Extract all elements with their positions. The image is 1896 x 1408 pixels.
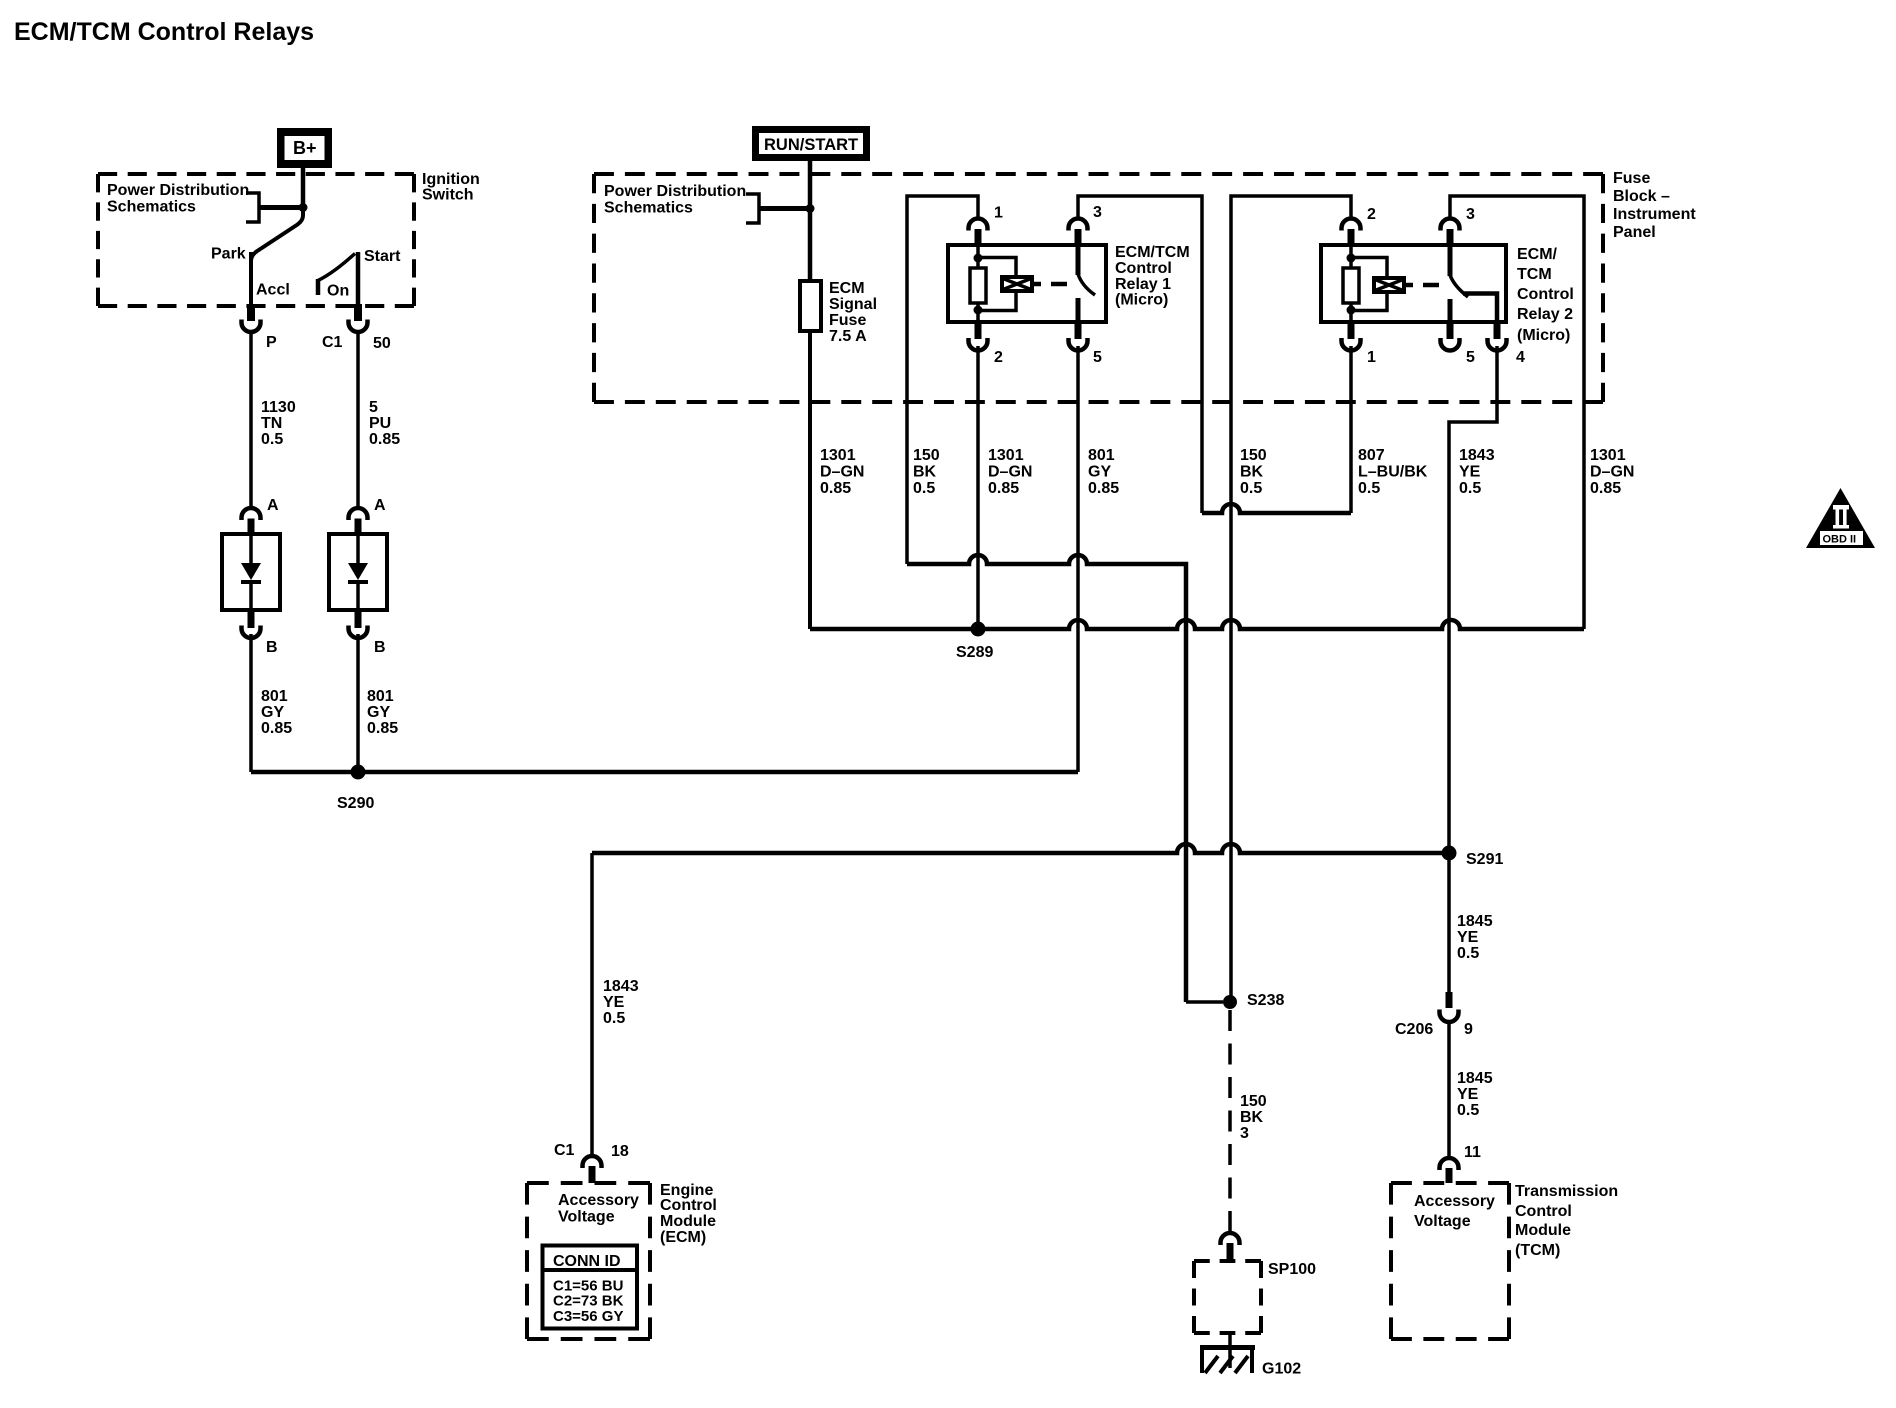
svg-text:P: P bbox=[266, 334, 277, 351]
connector stub B right bbox=[355, 610, 362, 628]
connector stub TCM pin 11 bbox=[1446, 1168, 1453, 1183]
svg-text:0.5: 0.5 bbox=[261, 431, 283, 448]
relay 2 pin 3 top link bbox=[1450, 196, 1584, 629]
connector arc relay1 pin 1 bbox=[969, 219, 988, 231]
CONN ID table bbox=[543, 1246, 638, 1329]
splice S291 bbox=[1442, 846, 1457, 861]
connector arc A (right diode) bbox=[349, 508, 368, 520]
label Ignition Switch bbox=[422, 171, 480, 204]
svg-text:S291: S291 bbox=[1466, 851, 1503, 868]
svg-text:150: 150 bbox=[1240, 1093, 1267, 1110]
svg-text:CONN ID: CONN ID bbox=[553, 1253, 621, 1270]
label Engine Control Module (ECM) bbox=[660, 1182, 717, 1246]
svg-text:1: 1 bbox=[1367, 349, 1376, 366]
svg-text:B: B bbox=[266, 639, 278, 656]
connector arc relay2 pin 5 bbox=[1441, 338, 1460, 351]
wire label 1301 D-GN 0.85 (fuse out) bbox=[820, 447, 864, 497]
connector arc relay2 pin 1 bbox=[1342, 338, 1361, 351]
relay1 coil stub to actuator bbox=[1034, 282, 1041, 287]
label ECM/ TCM Control Relay 2 (Micro) bbox=[1517, 246, 1574, 344]
svg-text:GY: GY bbox=[367, 704, 390, 721]
svg-text:D–GN: D–GN bbox=[1590, 464, 1634, 481]
fuse F1 ECM Signal Fuse bbox=[800, 281, 821, 331]
connector stub relay1 pin1 bbox=[975, 229, 982, 246]
svg-text:ECM: ECM bbox=[829, 280, 865, 297]
svg-text:150: 150 bbox=[913, 447, 940, 464]
elbow into S238 from upper bus bbox=[1186, 1000, 1223, 1004]
connector stub relay2 pin4 bbox=[1494, 321, 1501, 339]
connector arc relay2 pin 3 bbox=[1441, 219, 1460, 231]
svg-text:1301: 1301 bbox=[988, 447, 1024, 464]
relay2 switch fixed contact from pin 3 bbox=[1448, 244, 1453, 276]
connector arc relay2 pin 2 bbox=[1342, 219, 1361, 231]
svg-text:Control: Control bbox=[1517, 286, 1574, 303]
relay 1 pin 1 top link bbox=[907, 196, 978, 564]
wire relay2 pin4 down with jog bbox=[1449, 346, 1497, 993]
connector stub relay2 pin3 bbox=[1447, 229, 1454, 246]
wire label 1301 D-GN 0.85 (relay1 pin2) bbox=[988, 447, 1032, 497]
relay2 actuator dashed link bbox=[1423, 283, 1439, 288]
svg-text:3: 3 bbox=[1466, 206, 1475, 223]
svg-text:0.5: 0.5 bbox=[1240, 480, 1262, 497]
svg-text:7.5 A: 7.5 A bbox=[829, 328, 867, 345]
connector arc C1 50 bbox=[349, 320, 368, 333]
svg-text:Panel: Panel bbox=[1613, 224, 1656, 241]
svg-text:C1: C1 bbox=[322, 334, 343, 351]
wire label 807 L-BU/BK 0.5 (relay2 pin1) bbox=[1358, 447, 1428, 497]
svg-text:B: B bbox=[374, 639, 386, 656]
svg-text:0.5: 0.5 bbox=[1358, 480, 1380, 497]
svg-text:150: 150 bbox=[1240, 447, 1267, 464]
svg-text:9: 9 bbox=[1464, 1021, 1473, 1038]
wire label 801 GY 0.85 (left) bbox=[261, 688, 292, 737]
wire relay2 pin1 down bbox=[1349, 346, 1353, 513]
relay1 top coil node bbox=[974, 254, 983, 263]
svg-text:0.5: 0.5 bbox=[1457, 1102, 1479, 1119]
connector stub relay2 pin1 bbox=[1348, 321, 1355, 339]
relay1 coil element bbox=[1002, 277, 1032, 291]
relay2 wire resistor to pin1 bbox=[1349, 303, 1353, 323]
svg-text:18: 18 bbox=[611, 1143, 629, 1160]
svg-text:5: 5 bbox=[1093, 349, 1102, 366]
relay2 top coil node bbox=[1347, 254, 1356, 263]
connector arc SP100 bbox=[1221, 1233, 1240, 1245]
relay2 resistor bbox=[1343, 268, 1359, 303]
wire Start contact down bbox=[356, 252, 361, 307]
connector arc C206 bbox=[1440, 1010, 1459, 1023]
wire label 1301 D-GN 0.85 (relay2 pin3) bbox=[1590, 447, 1634, 497]
wire 5 PU bbox=[356, 331, 360, 508]
svg-text:Module: Module bbox=[1515, 1222, 1571, 1239]
svg-text:ECM/: ECM/ bbox=[1517, 246, 1558, 263]
label ECM/TCM Control Relay 1 (Micro) bbox=[1115, 244, 1190, 309]
ignition switch dashed box bbox=[98, 172, 414, 176]
OBD II marker triangle bbox=[1806, 488, 1875, 548]
relay1 coil feed wire bbox=[976, 247, 980, 268]
wire Park contact down bbox=[249, 252, 253, 307]
relay U2 ECM/TCM Control Relay 2 box bbox=[1321, 245, 1506, 322]
relay2 switch output to pin 4 bbox=[1463, 294, 1497, 324]
wire label 801 GY 0.85 (relay1 pin5) bbox=[1088, 447, 1119, 497]
svg-text:1301: 1301 bbox=[1590, 447, 1626, 464]
label Fuse Block - Instrument Panel bbox=[1613, 170, 1696, 241]
wire label 1845 YE 0.5 (above C206) bbox=[1457, 913, 1493, 962]
svg-text:S290: S290 bbox=[337, 795, 374, 812]
relay2 switch lower contact to pin 5 bbox=[1448, 299, 1453, 323]
upper bus from pin1 link bbox=[907, 555, 1186, 1002]
svg-text:Power Distribution: Power Distribution bbox=[604, 183, 746, 200]
wire label 1845 YE 0.5 (below C206) bbox=[1457, 1070, 1493, 1119]
splice S289 bbox=[971, 622, 986, 637]
RUN/START power feed box bbox=[752, 126, 870, 161]
label Transmission Control Module (TCM) bbox=[1515, 1183, 1618, 1259]
svg-text:GY: GY bbox=[261, 704, 284, 721]
label Accessory Voltage (TCM) bbox=[1414, 1193, 1495, 1230]
label Power Distribution Schematics (fuse block) bbox=[604, 183, 746, 217]
svg-text:Fuse: Fuse bbox=[1613, 170, 1650, 187]
wire label 150 BK 3 bbox=[1240, 1093, 1267, 1142]
splice S238 bbox=[1223, 995, 1237, 1009]
SP100 splice pack dashed box bbox=[1194, 1259, 1261, 1263]
wire label 1843 YE 0.5 (ECM feed) bbox=[603, 978, 639, 1027]
relay2 switch blade bbox=[1450, 275, 1468, 297]
svg-text:3: 3 bbox=[1093, 204, 1102, 221]
svg-text:D–GN: D–GN bbox=[820, 464, 864, 481]
relay2 coil parallel branch wires bbox=[1353, 258, 1387, 277]
label Accessory Voltage (ECM) bbox=[558, 1192, 639, 1226]
relay1 resistor bbox=[970, 268, 986, 303]
wire fuse down to S289 bbox=[808, 331, 812, 629]
svg-text:Ignition: Ignition bbox=[422, 171, 480, 188]
relay1 switch fixed contact from pin 3 bbox=[1076, 244, 1081, 275]
wire 1130 TN bbox=[249, 331, 253, 508]
svg-text:Control: Control bbox=[1515, 1203, 1572, 1220]
relay2 bottom coil node bbox=[1347, 306, 1356, 315]
svg-text:Park: Park bbox=[211, 246, 246, 263]
svg-text:D–GN: D–GN bbox=[988, 464, 1032, 481]
wire label 5 PU 0.85 bbox=[369, 399, 400, 448]
diode D1 box (left) bbox=[222, 534, 280, 610]
svg-text:A: A bbox=[267, 497, 279, 514]
label Power Distribution Schematics (ignition) bbox=[107, 182, 249, 216]
connector stub C206 top bbox=[1446, 992, 1453, 1008]
connector arc relay1 pin 5 bbox=[1069, 338, 1088, 351]
connector arc P bbox=[242, 320, 261, 333]
svg-text:(Micro): (Micro) bbox=[1115, 292, 1168, 309]
svg-text:(TCM): (TCM) bbox=[1515, 1242, 1560, 1259]
svg-text:0.85: 0.85 bbox=[1088, 480, 1119, 497]
svg-text:YE: YE bbox=[1459, 464, 1481, 481]
ground G102 symbol bbox=[1200, 1333, 1255, 1373]
ignition switch blade (Park position) bbox=[251, 208, 303, 280]
S291 bus wire bbox=[592, 844, 1449, 853]
relay1 wire resistor to pin2 bbox=[976, 303, 980, 323]
svg-text:0.85: 0.85 bbox=[369, 431, 400, 448]
svg-text:Voltage: Voltage bbox=[558, 1209, 615, 1226]
wire C206 to TCM bbox=[1447, 1020, 1451, 1157]
svg-text:BK: BK bbox=[913, 464, 937, 481]
svg-text:1845: 1845 bbox=[1457, 1070, 1493, 1087]
relay 1 pin 3 top link bbox=[1078, 196, 1202, 513]
svg-text:Signal: Signal bbox=[829, 296, 877, 313]
ECM dashed box bbox=[527, 1181, 650, 1185]
bracket to power distribution schematics (fuse block) bbox=[746, 194, 807, 223]
svg-text:C2=73 BK: C2=73 BK bbox=[553, 1293, 624, 1310]
svg-text:0.5: 0.5 bbox=[1457, 945, 1479, 962]
svg-text:Relay 1: Relay 1 bbox=[1115, 276, 1171, 293]
connector arc B (right) bbox=[349, 626, 368, 639]
svg-text:OBD II: OBD II bbox=[1823, 534, 1857, 546]
svg-text:RUN/START: RUN/START bbox=[764, 136, 858, 154]
wire label 1843 YE 0.5 (relay2 pin4) bbox=[1459, 447, 1495, 497]
svg-text:0.5: 0.5 bbox=[603, 1010, 625, 1027]
relay 2 pin 2 top link bbox=[1231, 196, 1351, 1002]
label ECM Signal Fuse 7.5 A bbox=[829, 280, 877, 345]
svg-text:3: 3 bbox=[1240, 1125, 1249, 1142]
svg-text:0.85: 0.85 bbox=[1590, 480, 1621, 497]
svg-text:2: 2 bbox=[994, 349, 1003, 366]
svg-text:G102: G102 bbox=[1262, 1361, 1301, 1378]
svg-text:1: 1 bbox=[994, 205, 1003, 222]
fuse block dashed box bbox=[594, 172, 1603, 176]
svg-text:ECM/TCM: ECM/TCM bbox=[1115, 244, 1190, 261]
svg-text:Control: Control bbox=[660, 1197, 717, 1214]
svg-text:L–BU/BK: L–BU/BK bbox=[1358, 464, 1428, 481]
connector stub relay2 pin2 bbox=[1348, 229, 1355, 246]
svg-text:1845: 1845 bbox=[1457, 913, 1493, 930]
connector arc B (left) bbox=[242, 626, 261, 639]
svg-text:Schematics: Schematics bbox=[604, 200, 693, 217]
svg-text:801: 801 bbox=[367, 688, 394, 705]
wire label 801 GY 0.85 (right) bbox=[367, 688, 398, 737]
connector arc TCM pin 11 bbox=[1440, 1158, 1459, 1170]
connector arc ECM C1 pin 18 bbox=[583, 1156, 602, 1168]
svg-text:0.85: 0.85 bbox=[367, 720, 398, 737]
TCM dashed box bbox=[1391, 1181, 1509, 1185]
relay1 switch lower contact to pin 5 bbox=[1076, 298, 1081, 323]
svg-text:807: 807 bbox=[1358, 447, 1385, 464]
svg-text:1843: 1843 bbox=[603, 978, 639, 995]
svg-text:Block –: Block – bbox=[1613, 188, 1670, 205]
wire label 150 BK 0.5 (relay2 pin2) bbox=[1240, 447, 1267, 497]
svg-text:Voltage: Voltage bbox=[1414, 1213, 1471, 1230]
connector stub A right bbox=[355, 519, 362, 536]
svg-text:2: 2 bbox=[1367, 206, 1376, 223]
connector stub 50 bbox=[354, 304, 362, 321]
B+ power feed box bbox=[277, 128, 332, 168]
svg-text:1130: 1130 bbox=[261, 399, 296, 416]
connector stub P bbox=[247, 304, 255, 321]
link relay1 pin3 to relay2 pin1 bbox=[1202, 504, 1351, 513]
svg-text:1301: 1301 bbox=[820, 447, 856, 464]
svg-text:C206: C206 bbox=[1395, 1021, 1433, 1038]
svg-text:Power Distribution: Power Distribution bbox=[107, 182, 249, 199]
svg-text:801: 801 bbox=[261, 688, 288, 705]
svg-text:SP100: SP100 bbox=[1268, 1261, 1316, 1278]
svg-text:5: 5 bbox=[369, 399, 378, 416]
wire relay1 pin2 to S289 bbox=[976, 346, 980, 629]
connector stub ECM pin 18 bbox=[589, 1166, 596, 1183]
svg-text:1843: 1843 bbox=[1459, 447, 1495, 464]
relay2 coil stub to actuator bbox=[1406, 283, 1413, 288]
svg-text:B+: B+ bbox=[293, 138, 317, 158]
junction node at ECM signal fuse feed bbox=[806, 204, 815, 213]
junction node at ignition feed bbox=[299, 203, 308, 212]
svg-text:TN: TN bbox=[261, 415, 282, 432]
svg-text:Switch: Switch bbox=[422, 187, 474, 204]
svg-text:C1: C1 bbox=[554, 1142, 575, 1159]
svg-text:YE: YE bbox=[1457, 929, 1479, 946]
wire relay1 pin5 to S290 bbox=[1076, 346, 1080, 772]
svg-text:Accessory: Accessory bbox=[1414, 1193, 1495, 1210]
connector stub A left bbox=[248, 519, 255, 536]
svg-text:4: 4 bbox=[1516, 349, 1525, 366]
connector stub relay1 pin5 bbox=[1075, 321, 1082, 339]
svg-text:Control: Control bbox=[1115, 260, 1172, 277]
svg-text:0.85: 0.85 bbox=[261, 720, 292, 737]
wire 801 GY left bbox=[249, 634, 253, 772]
svg-text:Accessory: Accessory bbox=[558, 1192, 639, 1209]
connector arc A (left diode) bbox=[242, 508, 261, 520]
relay1 coil parallel branch wires bbox=[980, 258, 1016, 276]
svg-text:On: On bbox=[327, 283, 349, 300]
relay U1 ECM/TCM Control Relay 1 box bbox=[948, 245, 1106, 322]
svg-text:Transmission: Transmission bbox=[1515, 1183, 1618, 1200]
relay2 coil feed wire bbox=[1349, 247, 1353, 268]
svg-text:PU: PU bbox=[369, 415, 391, 432]
svg-text:11: 11 bbox=[1464, 1144, 1481, 1161]
svg-text:Accl: Accl bbox=[256, 282, 290, 299]
svg-text:50: 50 bbox=[373, 335, 391, 352]
svg-text:S289: S289 bbox=[956, 644, 993, 661]
connector stub SP100 bbox=[1227, 1243, 1234, 1261]
wire label 150 BK 0.5 (relay1 pin1) bbox=[913, 447, 940, 497]
svg-text:TCM: TCM bbox=[1517, 266, 1552, 283]
connector arc relay1 pin 3 bbox=[1069, 219, 1088, 231]
svg-text:Instrument: Instrument bbox=[1613, 206, 1696, 223]
svg-text:801: 801 bbox=[1088, 447, 1115, 464]
svg-text:BK: BK bbox=[1240, 464, 1264, 481]
svg-text:Module: Module bbox=[660, 1213, 716, 1230]
svg-text:0.85: 0.85 bbox=[820, 480, 851, 497]
svg-text:(Micro): (Micro) bbox=[1517, 327, 1570, 344]
svg-text:YE: YE bbox=[603, 994, 625, 1011]
connector stub B left bbox=[248, 610, 255, 628]
dashed ground wire 150 BK 3 bbox=[1228, 1010, 1232, 1232]
connector stub relay1 pin3 bbox=[1075, 229, 1082, 246]
wire 801 GY right bbox=[356, 634, 360, 772]
svg-text:S238: S238 bbox=[1247, 992, 1284, 1009]
connector arc relay2 pin 4 bbox=[1488, 338, 1507, 351]
svg-text:A: A bbox=[374, 497, 386, 514]
svg-text:C3=56 GY: C3=56 GY bbox=[553, 1308, 623, 1325]
connector stub relay1 pin2 bbox=[975, 321, 982, 339]
wire RUN/START to fuse bbox=[808, 161, 813, 281]
svg-text:(ECM): (ECM) bbox=[660, 1229, 706, 1246]
svg-text:ECM/TCM Control Relays: ECM/TCM Control Relays bbox=[14, 18, 314, 46]
bracket to power distribution schematics (ignition) bbox=[246, 193, 305, 222]
ignition On/Start contact arc bbox=[318, 254, 355, 296]
svg-text:5: 5 bbox=[1466, 349, 1475, 366]
connector stub relay2 pin5 bbox=[1447, 321, 1454, 339]
svg-text:Schematics: Schematics bbox=[107, 199, 196, 216]
svg-text:Fuse: Fuse bbox=[829, 312, 866, 329]
splice S290 bbox=[351, 765, 366, 780]
svg-text:Start: Start bbox=[364, 248, 401, 265]
svg-text:BK: BK bbox=[1240, 1109, 1264, 1126]
wire label 1130 TN 0.5 bbox=[261, 399, 296, 448]
svg-text:GY: GY bbox=[1088, 464, 1111, 481]
svg-text:YE: YE bbox=[1457, 1086, 1479, 1103]
S290 bus wire bbox=[251, 770, 1078, 775]
S289 bus wire bbox=[810, 620, 1584, 629]
relay1 actuator dashed link bbox=[1051, 282, 1067, 287]
relay1 switch blade bbox=[1078, 274, 1095, 295]
relay1 bottom coil node bbox=[974, 306, 983, 315]
svg-text:0.5: 0.5 bbox=[1459, 480, 1481, 497]
wire B+ to ignition switch bbox=[301, 168, 306, 209]
svg-text:Relay 2: Relay 2 bbox=[1517, 306, 1573, 323]
diode D2 box (right) bbox=[329, 534, 387, 610]
svg-text:0.5: 0.5 bbox=[913, 480, 935, 497]
wire S291 to ECM bbox=[590, 853, 594, 1155]
connector arc relay1 pin 2 bbox=[969, 338, 988, 351]
relay2 coil element bbox=[1374, 278, 1404, 292]
svg-text:0.85: 0.85 bbox=[988, 480, 1019, 497]
